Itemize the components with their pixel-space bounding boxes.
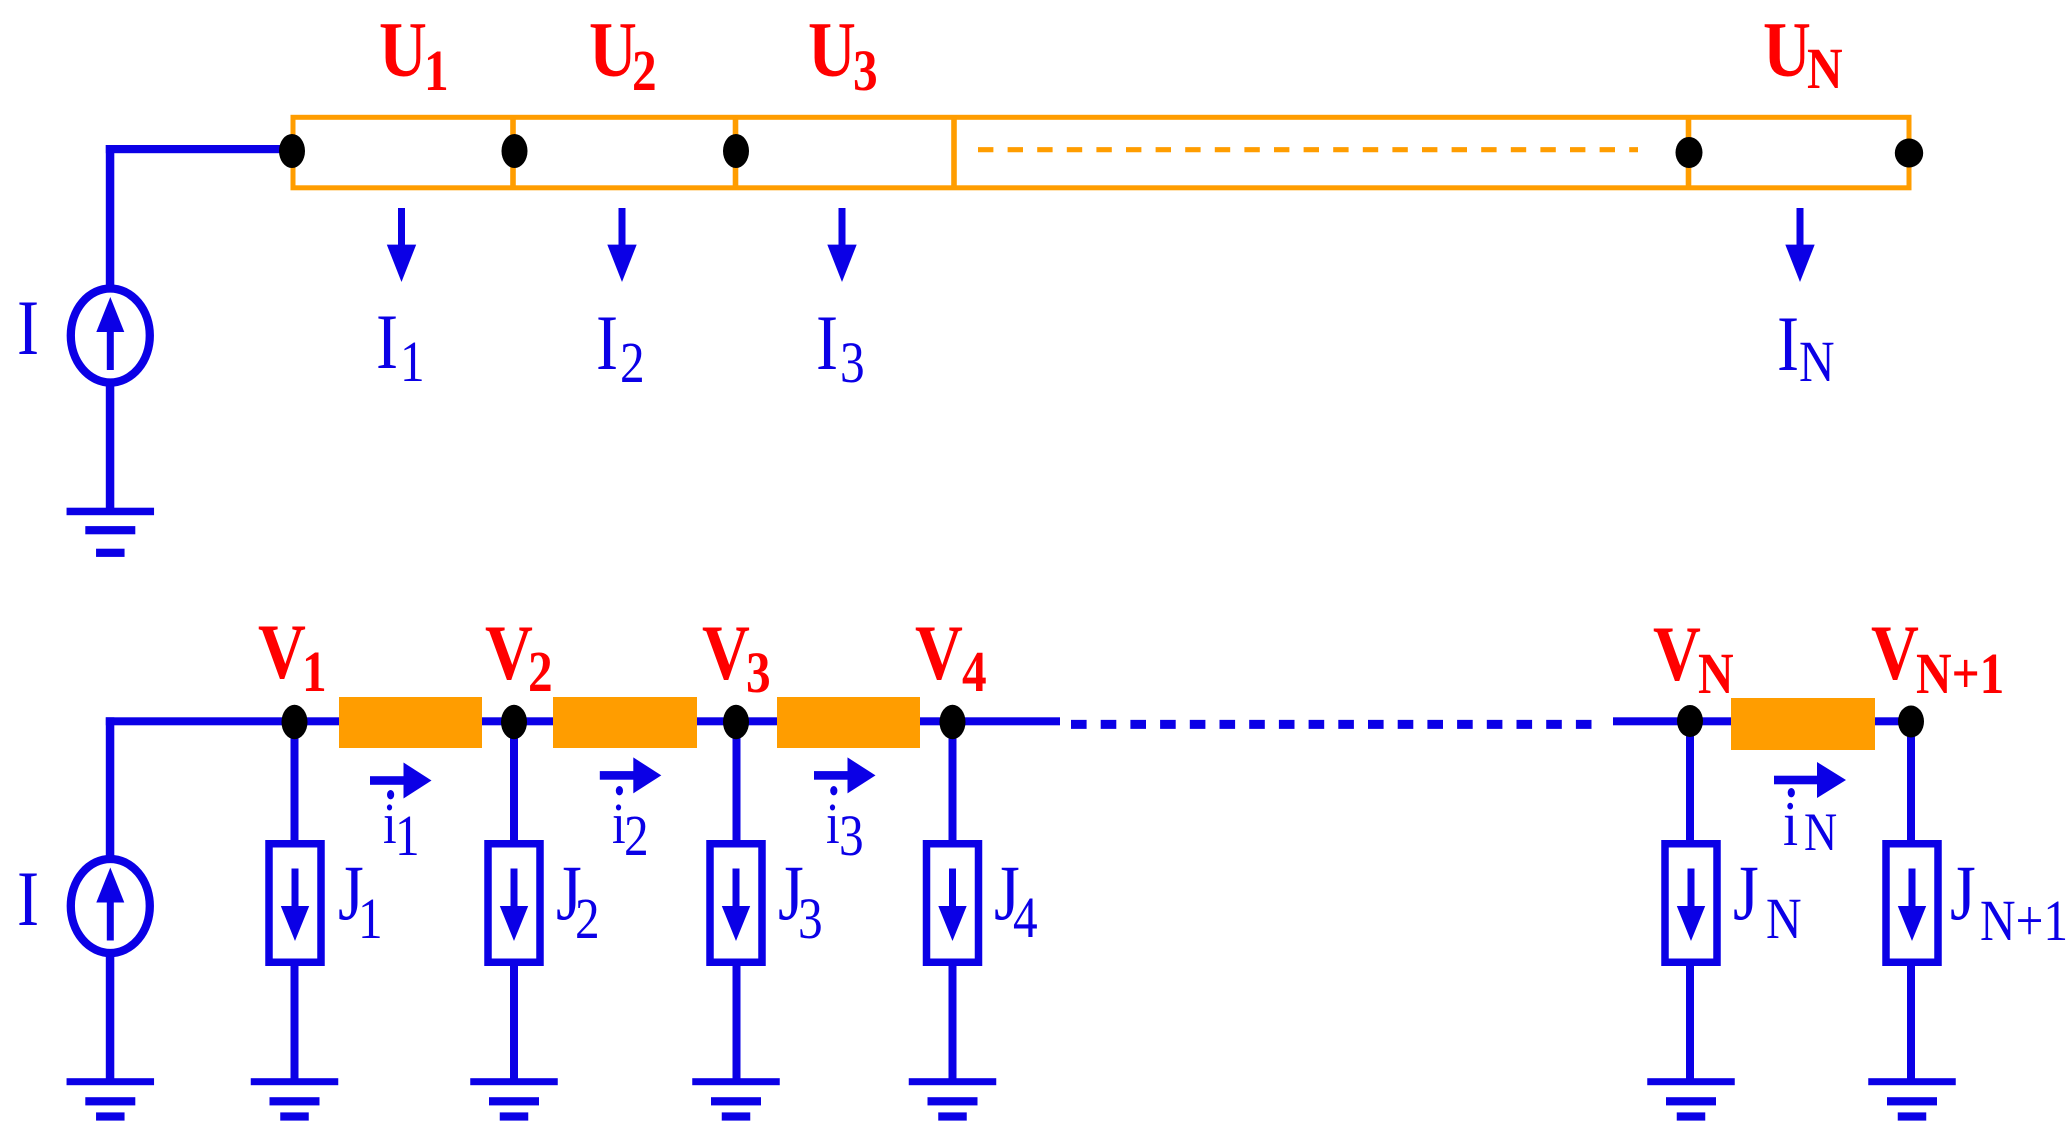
node V2 dot: [501, 705, 527, 739]
svg-text:V: V: [1871, 610, 1919, 696]
node dot (top bar after U1): [502, 134, 528, 168]
current source J2: [488, 844, 540, 963]
wire: J3 to ground: [733, 962, 741, 1079]
svg-text:I: I: [596, 300, 618, 386]
current source I (top): [71, 289, 150, 383]
svg-text:1: 1: [302, 639, 327, 704]
current source I (bottom): [71, 859, 150, 953]
arrow i3: [814, 757, 876, 793]
node V4 dot: [940, 705, 966, 739]
svg-text:J: J: [1950, 850, 1976, 936]
svg-text:3: 3: [746, 640, 771, 705]
svg-text:I: I: [17, 856, 39, 942]
wire: top source horizontal: [106, 145, 292, 153]
wire: bottom bus dashed middle: [1071, 720, 1592, 729]
current source JN+1: [1886, 844, 1938, 963]
dot over iN: [1788, 788, 1795, 797]
svg-text:J: J: [1733, 850, 1759, 936]
arrow i1: [370, 763, 432, 799]
wire: bottom source horizontal + bus solid left: [106, 717, 1060, 725]
ground (top source): [67, 508, 155, 557]
resistor RN: [1731, 698, 1875, 750]
svg-text:1: 1: [395, 803, 420, 868]
current source J1: [269, 844, 321, 963]
node dot (top bar left): [279, 134, 305, 168]
arrow IN (down): [1785, 208, 1814, 282]
svg-text:I: I: [816, 300, 838, 386]
ground (J3): [692, 1078, 780, 1120]
svg-text:N+1: N+1: [1916, 641, 2004, 706]
svg-text:3: 3: [840, 330, 865, 395]
busbar divider 2: [733, 117, 739, 188]
svg-text:3: 3: [839, 803, 864, 868]
dot over i1: [387, 790, 394, 799]
resistor R2: [553, 697, 697, 748]
current source JN: [1665, 844, 1717, 963]
arrow I1 (down): [387, 208, 416, 282]
node dot (top bar right end): [1895, 139, 1923, 168]
svg-text:I: I: [17, 285, 39, 371]
wire: J1 to ground: [291, 962, 299, 1079]
svg-text:2: 2: [632, 38, 657, 103]
ground (JN): [1647, 1078, 1735, 1120]
svg-text:U: U: [589, 7, 637, 93]
svg-text:V: V: [702, 610, 750, 696]
svg-text:1: 1: [424, 38, 449, 103]
node dot (top bar before U_N): [1676, 137, 1703, 168]
arrow i2: [600, 757, 662, 793]
svg-text:V: V: [485, 610, 533, 696]
dot over i3: [830, 786, 837, 795]
svg-text:U: U: [808, 7, 856, 93]
ground (bottom source): [67, 1078, 155, 1120]
busbar divider 3: [951, 117, 957, 188]
svg-text:2: 2: [624, 803, 649, 868]
svg-text:2: 2: [620, 330, 645, 395]
node V3 dot: [723, 705, 749, 739]
wire: VN+1 stub down: [1907, 722, 1915, 844]
svg-text:i: i: [1783, 788, 1798, 859]
busbar (top orange bar): [293, 117, 1909, 188]
wire: V4 stub down: [949, 722, 957, 844]
wire: V2 stub down: [510, 722, 518, 844]
wire: J2 to ground: [510, 962, 518, 1079]
node VN dot: [1677, 705, 1703, 737]
svg-text:N: N: [1799, 329, 1835, 394]
svg-text:I: I: [376, 299, 398, 385]
node dot (top bar after U2): [723, 134, 749, 168]
ground (JN+1): [1868, 1078, 1956, 1120]
dashed continuation (orange): [978, 147, 1638, 152]
wire: J4 to ground: [949, 962, 957, 1079]
wire: JN+1 to ground: [1907, 962, 1915, 1079]
wire: bottom source to ground: [106, 953, 115, 1079]
svg-text:V: V: [1653, 611, 1701, 697]
svg-text:1: 1: [400, 329, 425, 394]
svg-text:1: 1: [358, 886, 383, 951]
svg-text:I: I: [1777, 301, 1799, 387]
ground (J2): [470, 1078, 558, 1120]
svg-text:N: N: [1766, 886, 1802, 951]
arrow iN: [1774, 776, 1818, 785]
busbar divider 1: [510, 117, 516, 188]
svg-text:V: V: [258, 609, 306, 695]
current source J4: [927, 844, 979, 963]
svg-text:2: 2: [575, 886, 600, 951]
wire: bottom source vertical: [106, 717, 115, 859]
svg-text:i: i: [826, 791, 840, 856]
node V1 dot: [282, 705, 308, 739]
wire: JN to ground: [1686, 962, 1694, 1079]
current source J3: [710, 844, 762, 963]
wire: VN stub down: [1686, 722, 1694, 844]
svg-text:4: 4: [962, 639, 987, 704]
svg-text:3: 3: [798, 886, 823, 951]
svg-text:N: N: [1698, 641, 1734, 706]
wire: top source to ground: [106, 383, 115, 509]
svg-text:2: 2: [528, 639, 553, 704]
svg-text:V: V: [915, 610, 963, 696]
svg-text:U: U: [1763, 7, 1811, 93]
arrow I3 (down): [827, 208, 856, 282]
dot over i2: [616, 786, 623, 795]
svg-text:N+1: N+1: [1980, 888, 2068, 953]
svg-text:3: 3: [853, 38, 878, 103]
node VN+1 dot: [1898, 706, 1924, 738]
svg-text:U: U: [379, 7, 427, 93]
busbar divider 4 (before U_N): [1686, 117, 1692, 188]
arrow I2 (down): [607, 208, 636, 282]
wire: V3 stub down: [733, 722, 741, 844]
wire: bottom bus solid right: [1613, 717, 1911, 725]
ground (J1): [251, 1078, 339, 1120]
svg-text:N: N: [1807, 36, 1843, 101]
svg-text:4: 4: [1013, 885, 1038, 950]
resistor R3: [777, 697, 920, 748]
wire: top source vertical: [106, 145, 115, 289]
ground (J4): [909, 1078, 997, 1120]
wire: V1 stub down: [291, 722, 299, 844]
resistor R1: [339, 697, 482, 748]
svg-text:N: N: [1804, 802, 1837, 862]
